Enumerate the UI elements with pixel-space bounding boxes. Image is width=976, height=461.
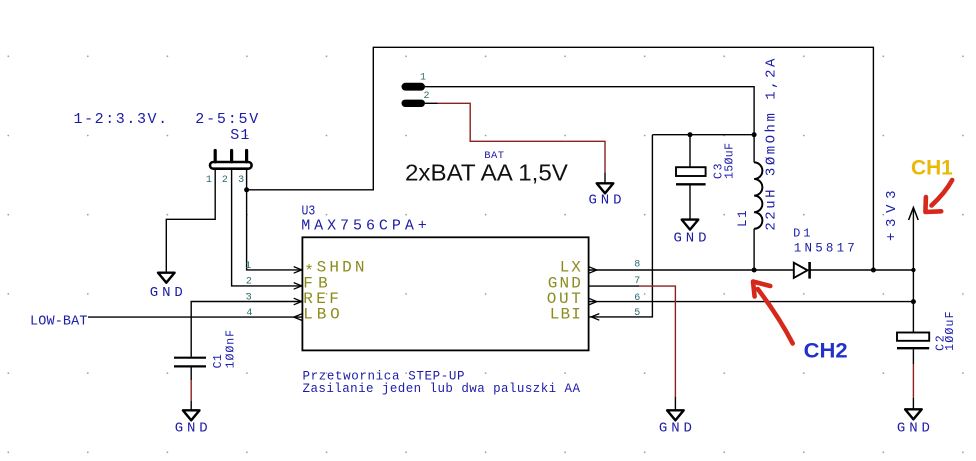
wire C1 ground black lead xyxy=(190,401,192,410)
svg-text:GND: GND xyxy=(897,420,930,436)
svg-text:7: 7 xyxy=(634,276,640,287)
capacitor C1 bottom plate xyxy=(174,365,206,367)
op-amp box U3 IC body xyxy=(302,237,588,350)
svg-text:1: 1 xyxy=(420,73,426,84)
pin 8 arrow out of LX xyxy=(589,267,597,274)
junction LX node at L1 bottom xyxy=(752,268,757,273)
svg-text:15ØuF: 15ØuF xyxy=(723,143,736,179)
svg-text:L1: L1 xyxy=(736,210,750,227)
svg-text:2xBAT AA 1,5V: 2xBAT AA 1,5V xyxy=(405,160,568,186)
svg-text:LBI: LBI xyxy=(550,305,581,323)
svg-text:3: 3 xyxy=(238,175,244,186)
wire BAT pad2 black stub xyxy=(425,102,438,104)
pin 5 arrow into LBI xyxy=(591,314,599,321)
pin 1 arrow into *SHDN xyxy=(294,267,302,274)
svg-text:GND: GND xyxy=(150,285,183,301)
wire L1 bottom to LX node xyxy=(753,229,755,270)
wire BAT pad1 to VBAT node xyxy=(425,87,754,135)
wire C2 red wire to ground xyxy=(912,364,914,398)
wire LX pin 8 to diode D1 anode xyxy=(589,269,794,271)
svg-text:5: 5 xyxy=(634,308,640,319)
svg-text:CH1: CH1 xyxy=(911,157,953,180)
pin 6 arrow out of OUT xyxy=(589,298,597,305)
svg-text:2: 2 xyxy=(222,175,228,186)
wire LOW-BAT to LBO pin 4 xyxy=(88,316,302,318)
wire VBAT branch to L1 top xyxy=(753,135,755,163)
svg-text:LBO: LBO xyxy=(303,306,339,324)
switch S1 pin stub 1 xyxy=(214,151,217,162)
pin 4 arrow out of LBO xyxy=(294,314,302,321)
svg-text:1-2:3.3V.: 1-2:3.3V. xyxy=(74,111,168,128)
wire GND pin 7 black stub xyxy=(589,285,639,287)
capacitor C3 bottom plate xyxy=(676,183,706,185)
wire VBAT horizontal C3/L1 top xyxy=(652,134,754,136)
svg-text:1: 1 xyxy=(245,261,251,272)
capacitor C2 bottom plate xyxy=(897,347,929,349)
wire +3V3 vertical stem to C2 top xyxy=(912,210,914,333)
ground symbol at S1 pin1 xyxy=(158,273,175,283)
svg-text:2: 2 xyxy=(246,277,252,288)
ground symbol at C2 xyxy=(905,409,922,419)
svg-text:3: 3 xyxy=(246,293,252,304)
+3V3 supply arrow xyxy=(909,208,919,221)
wire GND pin 7 red wire to ground xyxy=(639,286,675,397)
capacitor C1 top plate xyxy=(174,357,206,359)
svg-text:C1: C1 xyxy=(212,354,225,368)
battery connector BAT pad 2 xyxy=(402,100,426,107)
junction VOUT at top frame xyxy=(871,268,876,273)
annotation red arrow CH2 xyxy=(753,282,793,344)
junction node A at S1 pin3 xyxy=(244,187,249,192)
annotation red arrow CH1 xyxy=(925,180,952,212)
wire C1 bottom black lead xyxy=(190,367,192,380)
wire S1 pin3 to junction node A xyxy=(246,169,248,190)
switch S1 pin stub 2 xyxy=(230,151,233,162)
wire VBAT branch to C3 top xyxy=(689,135,691,168)
svg-text:2: 2 xyxy=(424,91,430,102)
svg-text:1ØØnF: 1ØØnF xyxy=(224,330,237,368)
svg-text:1ØØuF: 1ØØuF xyxy=(944,311,957,350)
wire S1 pin1 to ground xyxy=(166,169,215,273)
svg-text:4: 4 xyxy=(246,308,252,319)
diode D1 cathode bar xyxy=(808,262,811,279)
wire BAT ground black lead xyxy=(604,172,606,183)
junction VBAT at C3 xyxy=(688,132,693,137)
wire S1 pin2 to FB pin 2 xyxy=(232,169,303,286)
svg-text:22uH 3ØmOhm 1,2A: 22uH 3ØmOhm 1,2A xyxy=(764,58,780,231)
wire OUT pin 6 to +3V3 stem xyxy=(589,301,914,303)
pin 3 arrow into REF xyxy=(294,298,302,305)
inductor L1 coil xyxy=(754,162,762,228)
wire VBAT down to LBI pin 5 xyxy=(589,135,653,317)
capacitor C3 top plate (polarized) xyxy=(676,167,706,176)
wire C1 red wire to ground xyxy=(190,380,192,401)
pin 2 arrow into FB xyxy=(294,283,302,290)
junction VBAT at L1 xyxy=(752,132,757,137)
diode D1 triangle xyxy=(794,263,808,278)
wire REF pin 3 to C1 top xyxy=(191,302,302,357)
ground symbol at IC pin7 xyxy=(667,410,684,420)
svg-text:6: 6 xyxy=(634,293,640,304)
capacitor C2 top plate (polarized) xyxy=(897,333,929,341)
wire C2 bottom black lead xyxy=(912,349,914,364)
ground symbol at BAT xyxy=(597,183,614,193)
junction VOUT at +3V3 stem xyxy=(911,268,915,272)
svg-text:8: 8 xyxy=(634,260,640,271)
svg-text:CH2: CH2 xyxy=(804,340,848,363)
svg-text:GND: GND xyxy=(175,420,208,436)
ground symbol at C1 xyxy=(183,410,200,420)
svg-text:GND: GND xyxy=(674,231,707,247)
switch S1 pin stub 3 xyxy=(245,151,248,162)
wire node A around top frame to VOUT diode-cathode node xyxy=(247,47,874,270)
svg-text:LOW-BAT: LOW-BAT xyxy=(30,314,88,329)
svg-text:1: 1 xyxy=(206,175,212,186)
svg-text:S1: S1 xyxy=(230,127,249,144)
wire node A down to *SHDN pin 1 xyxy=(247,190,303,270)
wire IC GND black lead above ground symbol xyxy=(674,397,676,410)
wire C2 ground black lead xyxy=(912,398,914,409)
wire C3 bottom to ground xyxy=(689,186,691,220)
battery connector BAT pad 1 xyxy=(402,83,426,91)
svg-text:GND: GND xyxy=(589,192,622,208)
svg-text:Zasilanie jeden lub dwa palusz: Zasilanie jeden lub dwa paluszki AA xyxy=(303,382,581,396)
wire D1 cathode to +3V3 corner xyxy=(811,269,914,271)
ground symbol at C3 xyxy=(682,220,699,230)
junction OUT line at +3V3 stem xyxy=(911,299,916,304)
switch S1 body bar xyxy=(210,162,252,169)
wire BAT pad2 red wire to ground xyxy=(438,103,606,172)
svg-text:GND: GND xyxy=(659,420,692,436)
